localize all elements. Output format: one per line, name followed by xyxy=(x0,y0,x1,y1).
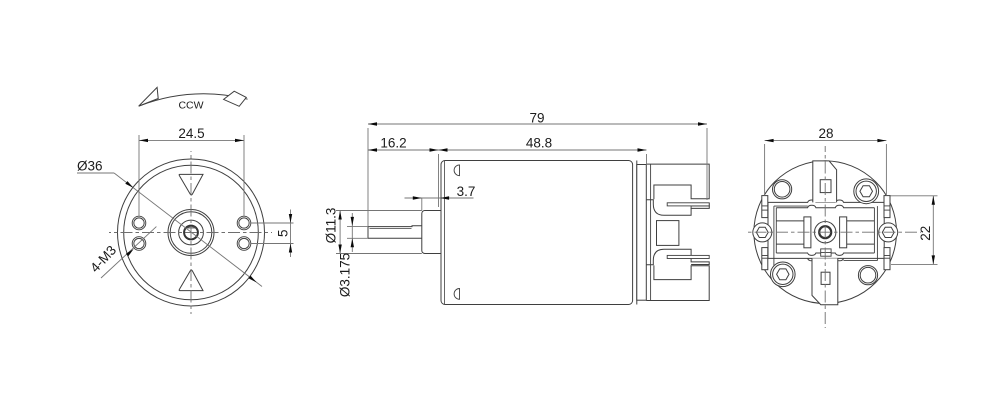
side view endcap ring xyxy=(637,165,647,301)
CCW end flag xyxy=(224,91,247,106)
rear platform bottom right line xyxy=(844,260,878,262)
rear screw TL inner xyxy=(774,182,790,198)
svg-text:79: 79 xyxy=(529,111,544,126)
rear hex bolt right circle xyxy=(879,223,898,242)
rear bearing bold xyxy=(819,226,831,238)
dim O11.3 ext bottom xyxy=(336,253,422,255)
rear screw TR outer xyxy=(854,179,879,204)
front view shaft flat xyxy=(187,226,196,227)
dim 79 arrow right xyxy=(698,122,707,125)
rear right bottom tab line1 xyxy=(884,255,890,257)
side view body inner face line xyxy=(444,161,446,305)
dim 24.5 ext line left xyxy=(138,135,140,216)
dim 24.5 arrow right xyxy=(235,139,244,142)
terminal top tab2 xyxy=(691,206,709,208)
rear bearing outer xyxy=(815,222,836,243)
dim 48.8 arrow right xyxy=(638,148,647,151)
front view hub middle circle xyxy=(179,220,204,245)
rear left bottom tab line1 xyxy=(762,255,768,257)
rear right bottom tab line2 xyxy=(884,257,890,259)
dim 79 line xyxy=(368,123,707,125)
front view outer circle xyxy=(118,159,265,306)
rear left brush xyxy=(804,217,811,248)
svg-text:3.7: 3.7 xyxy=(457,184,476,199)
rear screw BL hex xyxy=(777,269,789,280)
rear right top tab line2 xyxy=(884,209,890,211)
rear cross square xyxy=(821,249,831,256)
rear screw BL inner xyxy=(773,264,793,284)
terminal top xyxy=(667,203,709,206)
rear screw TR inner xyxy=(856,181,876,201)
rear brush card inner top xyxy=(776,205,874,207)
rear left pocket xyxy=(776,221,804,244)
dim 5 ext line bottom xyxy=(251,243,294,245)
dim 28 line xyxy=(765,140,887,142)
dim 79 ext left xyxy=(367,128,369,227)
dim 16.2 arrow right xyxy=(430,148,439,151)
rear screw BR inner xyxy=(860,267,876,283)
rear right pocket xyxy=(847,221,875,244)
front view M3 hole 3 inner xyxy=(134,238,144,248)
front view M3 hole 4 outer xyxy=(237,237,251,251)
rear bottom tab xyxy=(812,258,838,304)
svg-text:Ø36: Ø36 xyxy=(77,159,103,174)
front view M3 hole 4 inner xyxy=(239,238,249,248)
dim 5 line xyxy=(290,210,292,258)
dim O11.3 arrow bottom xyxy=(338,245,341,254)
leader O36 line xyxy=(114,173,262,287)
leader 4-M3 arrow xyxy=(126,249,134,256)
rear platform right edge xyxy=(876,206,878,261)
rear bottom tab window xyxy=(821,272,830,284)
svg-text:Ø11.3: Ø11.3 xyxy=(324,208,339,244)
front view bottom triangle vent xyxy=(179,270,203,291)
terminal bottom xyxy=(667,255,709,258)
front view shaft circle xyxy=(184,226,198,240)
rear cross square line xyxy=(821,252,831,254)
svg-text:28: 28 xyxy=(818,126,833,141)
side view shaft bottom xyxy=(368,237,422,239)
rear screw BR outer xyxy=(858,266,877,285)
rear brush card inner bottom xyxy=(776,253,874,255)
rear screw BL outer xyxy=(771,262,796,287)
rear vertical centerline xyxy=(824,146,826,328)
dim O3.175 ext bottom xyxy=(347,237,368,239)
rear top tab window xyxy=(820,180,831,193)
rear screw TL outer xyxy=(773,180,792,199)
svg-text:22: 22 xyxy=(918,226,933,241)
rear view outer circle xyxy=(754,161,897,304)
dim O11.3 arrow top xyxy=(338,211,341,220)
leader O36 underline xyxy=(77,172,114,174)
rear hex bolt left hex xyxy=(756,227,768,237)
rear brush card inner right xyxy=(873,208,875,253)
front view M3 hole 1 outer xyxy=(132,216,146,230)
dim 3.7 arrow left xyxy=(413,196,422,199)
side view shaft end xyxy=(367,227,369,239)
dim 16.2 arrow left xyxy=(368,148,377,151)
rear right top tab xyxy=(884,196,890,218)
svg-text:24.5: 24.5 xyxy=(178,126,204,141)
front view inner circle xyxy=(124,165,259,300)
endcap center square xyxy=(657,221,679,246)
rear hex bolt left circle xyxy=(753,223,772,242)
dim 79 ext right xyxy=(706,128,708,200)
svg-text:5: 5 xyxy=(276,229,291,237)
dim 5 arrow top xyxy=(289,214,292,223)
rear right brush xyxy=(840,217,847,248)
dim 3.7 tick xyxy=(421,198,423,211)
side view body right lip xyxy=(636,161,638,305)
dim O3.175 ext top xyxy=(347,226,368,228)
dim O3.175 line xyxy=(351,213,353,252)
dim 22 ext top xyxy=(891,195,938,197)
side view screw mark top xyxy=(454,165,459,176)
rear brush card inner left xyxy=(775,208,777,253)
dim 24.5 ext line right xyxy=(243,135,245,216)
dim 22 arrow bottom xyxy=(932,255,935,264)
front view horizontal centerline xyxy=(109,232,272,234)
rear platform top left line xyxy=(774,205,808,207)
side view bearing boss xyxy=(422,211,444,254)
side view body can xyxy=(441,161,633,305)
rear left top tab line2 xyxy=(762,209,768,211)
rear left top tab xyxy=(762,196,768,218)
rear horizontal centerline xyxy=(746,231,921,233)
dim 48.8 ext right xyxy=(646,154,648,165)
dim 16.2-48.8 line xyxy=(368,149,647,151)
front view M3 hole 3 outer xyxy=(132,237,146,251)
rear top tab xyxy=(813,161,837,203)
rear screw TR hex xyxy=(860,186,873,197)
endcap top bracket xyxy=(646,200,709,216)
dim 16.2 ext mid xyxy=(438,154,440,207)
rear left top tab line1 xyxy=(762,205,768,207)
dim O11.3 line xyxy=(339,211,341,254)
front view top triangle vent xyxy=(179,174,203,195)
endcap base plate edge xyxy=(650,164,652,300)
side view shaft flat inner line xyxy=(370,227,412,229)
dim 28 ext right xyxy=(885,144,887,196)
svg-text:Ø3.175: Ø3.175 xyxy=(338,253,353,297)
svg-text:CCW: CCW xyxy=(178,100,203,112)
CCW arc xyxy=(139,94,248,106)
dim 24.5 line xyxy=(139,139,244,141)
dim 28 arrow left xyxy=(765,139,774,142)
leader O36 arrow far xyxy=(248,276,256,283)
leader 4-M3 line xyxy=(101,227,156,278)
dim 3.7 line xyxy=(405,197,474,199)
CCW open arrowhead xyxy=(139,87,159,106)
dim 28 arrow right xyxy=(877,139,886,142)
rear right top tab line1 xyxy=(884,205,890,207)
side view shaft flat top xyxy=(368,225,422,228)
dim O11.3 ext top xyxy=(336,210,422,212)
front view M3 hole 2 inner xyxy=(239,218,249,228)
dim O3.175 arrow bottom xyxy=(351,238,354,247)
leader O36 arrow near xyxy=(125,181,133,188)
front view M3 hole 2 outer xyxy=(237,216,251,230)
dim 3.7 arrow right xyxy=(440,196,449,199)
endcap bottom block xyxy=(646,265,709,300)
endcap bottom bracket xyxy=(646,249,709,264)
front view hub ring outer xyxy=(168,210,214,256)
dim 22 arrow top xyxy=(932,196,935,205)
front view vertical centerline xyxy=(190,151,192,314)
rear right bottom tab xyxy=(884,248,890,270)
dim 28 ext left xyxy=(764,144,766,196)
dim 24.5 arrow left xyxy=(139,139,148,142)
dim 79 arrow left xyxy=(368,122,377,125)
dim O3.175 arrow top xyxy=(351,217,354,226)
rear brush card outline xyxy=(768,200,884,261)
rear hex bolt right hex xyxy=(882,227,894,237)
dim 5 arrow bottom xyxy=(289,244,292,253)
endcap top block xyxy=(646,164,709,199)
rear platform left edge xyxy=(773,206,775,281)
dim 5 ext line top xyxy=(251,222,294,224)
svg-text:48.8: 48.8 xyxy=(526,136,552,151)
front view hub ring inner xyxy=(170,212,212,254)
side view screw mark bottom xyxy=(454,289,459,300)
dim 22 line xyxy=(932,196,934,265)
dim 22 ext bottom xyxy=(891,263,938,265)
rear left bottom tab line2 xyxy=(762,257,768,259)
svg-text:16.2: 16.2 xyxy=(380,136,406,151)
dim 48.8 arrow left xyxy=(439,148,448,151)
rear left bottom tab xyxy=(762,248,768,270)
front view M3 hole 1 inner xyxy=(134,218,144,228)
